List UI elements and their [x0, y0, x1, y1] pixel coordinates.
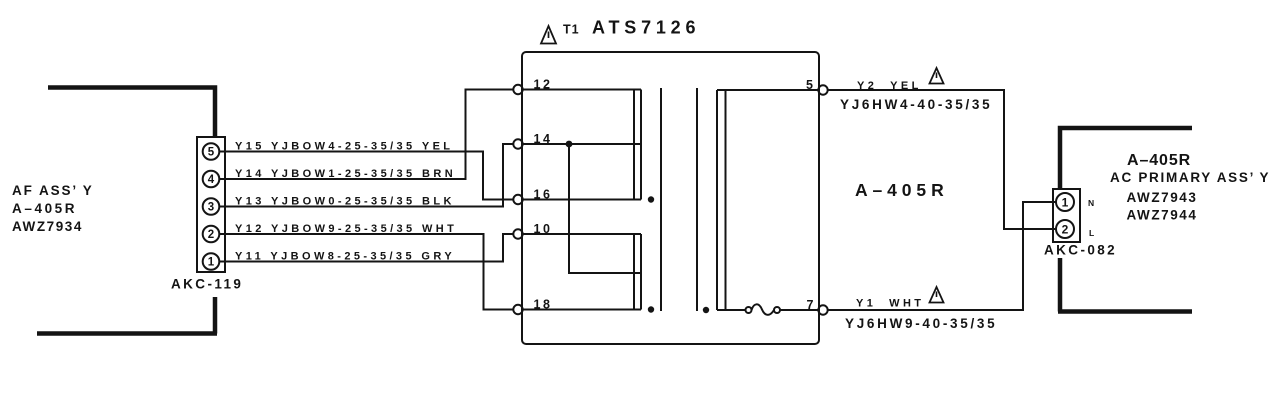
winding B pin18 wire	[523, 309, 641, 311]
polarity dot winding A	[648, 196, 654, 202]
connector AKC-082	[1053, 189, 1080, 242]
wire AC primary bracket top-right	[1060, 128, 1192, 189]
wire Y2 YEL pin5 to AKC-082 pin2	[828, 90, 1056, 229]
pin 18	[513, 305, 522, 314]
wire AC primary bracket bottom-right	[1058, 258, 1192, 312]
pin 10	[513, 229, 522, 238]
svg-text:YJ6HW4-40-35/35: YJ6HW4-40-35/35	[840, 97, 992, 112]
svg-text:7: 7	[807, 298, 817, 312]
wire AF assembly bracket top-left	[48, 88, 215, 138]
svg-text:Y13 YJBOW0-25-35/35 BLK: Y13 YJBOW0-25-35/35 BLK	[235, 195, 455, 207]
thermal fuse terminal right	[774, 307, 780, 313]
wire Y1 WHT pin7 to AKC-082 pin1	[828, 202, 1056, 310]
connector AKC-119	[197, 137, 225, 272]
secondary winding double line	[717, 90, 726, 310]
pin 3	[203, 198, 220, 215]
pin 1	[203, 253, 220, 270]
pin 16	[513, 195, 522, 204]
svg-text:5: 5	[208, 147, 215, 159]
pin 7	[818, 305, 827, 314]
svg-text:YJ6HW9-40-35/35: YJ6HW9-40-35/35	[845, 316, 997, 331]
core line right	[696, 88, 698, 311]
thermal fuse wave	[752, 304, 775, 315]
winding A bus double line	[634, 90, 641, 200]
svg-text:1: 1	[1062, 196, 1069, 210]
svg-text:T1: T1	[563, 23, 580, 37]
polarity dot secondary	[703, 307, 709, 313]
thermal fuse terminal left	[746, 307, 752, 313]
wire AF assembly bracket bottom-left	[37, 297, 217, 334]
junction dot pin14 tap	[566, 141, 573, 148]
pin 1	[1056, 193, 1074, 211]
winding A pin12 wire	[523, 89, 641, 91]
svg-text:Y14 YJBOW1-25-35/35 BRN: Y14 YJBOW1-25-35/35 BRN	[235, 168, 456, 180]
svg-text:5: 5	[806, 78, 816, 92]
wire Y15 YEL pin5 to pin16	[219, 152, 513, 200]
svg-text:Y11 YJBOW8-25-35/35 GRY: Y11 YJBOW8-25-35/35 GRY	[235, 250, 455, 262]
svg-text:Y15 YJBOW4-25-35/35 YEL: Y15 YJBOW4-25-35/35 YEL	[235, 140, 453, 152]
wire Y11 GRY pin1 to pin10	[219, 234, 513, 262]
pin 12	[513, 85, 522, 94]
winding B pin10 wire	[523, 233, 641, 235]
winding A pin14 tap wire	[523, 143, 641, 145]
pin 2	[1056, 220, 1074, 238]
svg-text:AF ASS’ Y: AF ASS’ Y	[12, 183, 94, 198]
svg-text:AKC-082: AKC-082	[1044, 243, 1117, 258]
svg-text:2: 2	[208, 229, 214, 241]
winding B bus double line	[634, 234, 641, 310]
svg-text:A–405R: A–405R	[855, 180, 949, 200]
svg-text:Y1 WHT: Y1 WHT	[856, 298, 924, 310]
svg-text:Y2 YEL: Y2 YEL	[857, 80, 922, 92]
warning triangle T1	[541, 26, 556, 44]
svg-text:A–405R: A–405R	[1127, 152, 1191, 169]
pin 5	[203, 143, 220, 160]
svg-text:L: L	[1089, 228, 1094, 238]
wire Y14 BRN pin4 to pin12	[219, 90, 513, 180]
svg-text:A–405R: A–405R	[12, 201, 77, 216]
warning triangle Y2	[930, 68, 944, 84]
svg-text:AWZ7943: AWZ7943	[1127, 190, 1198, 205]
svg-text:Y12 YJBOW9-25-35/35 WHT: Y12 YJBOW9-25-35/35 WHT	[235, 223, 457, 235]
svg-text:1: 1	[208, 257, 215, 269]
wire Y13 BLK pin3 to pin14	[219, 144, 513, 207]
wire secondary top to pin 5	[717, 89, 819, 91]
pin 2	[203, 226, 220, 243]
warning triangle Y1	[930, 287, 944, 303]
winding A pin16 wire	[523, 199, 641, 201]
svg-text:AC PRIMARY ASS’ Y: AC PRIMARY ASS’ Y	[1110, 170, 1270, 185]
svg-text:AWZ7934: AWZ7934	[12, 219, 83, 234]
pin 5	[818, 85, 827, 94]
wire tap 14 to winding B	[569, 144, 641, 273]
svg-text:N: N	[1088, 198, 1094, 208]
polarity dot winding B	[648, 306, 654, 312]
core line left	[660, 88, 662, 311]
pin 4	[203, 171, 220, 188]
transformer T1 box	[522, 52, 819, 344]
svg-text:4: 4	[208, 174, 215, 186]
svg-text:3: 3	[208, 202, 214, 214]
svg-text:2: 2	[1062, 223, 1069, 237]
wire fuse to pin 7	[780, 309, 819, 311]
svg-text:AWZ7944: AWZ7944	[1127, 208, 1198, 223]
svg-text:ATS7126: ATS7126	[592, 18, 700, 38]
wire Y12 WHT pin2 to pin18	[219, 234, 513, 310]
pin 14	[513, 139, 522, 148]
svg-text:AKC-119: AKC-119	[171, 277, 243, 292]
wire secondary bottom	[717, 309, 746, 311]
